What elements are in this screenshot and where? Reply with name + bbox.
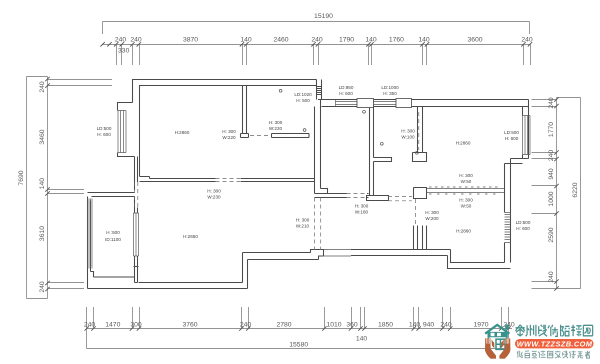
pier 2 bbox=[396, 99, 412, 108]
svg-text:240: 240 bbox=[311, 37, 323, 44]
pier 1 bbox=[357, 99, 374, 108]
logo title glyphs bbox=[515, 325, 592, 337]
wall top band outer bbox=[318, 99, 529, 101]
svg-text:H:2860: H:2860 bbox=[456, 141, 471, 146]
glyph zhe bbox=[585, 351, 590, 358]
svg-text:1850: 1850 bbox=[378, 322, 393, 329]
logo subtitle glyphs bbox=[517, 351, 590, 358]
svg-text:330: 330 bbox=[118, 48, 130, 55]
window interior band W8 bbox=[427, 189, 505, 193]
svg-text:240: 240 bbox=[84, 322, 96, 329]
window balcony right W3 bbox=[134, 213, 139, 256]
dimension bottom chain line bbox=[87, 328, 513, 330]
pier rects top band bbox=[357, 99, 412, 108]
svg-text:2460: 2460 bbox=[273, 37, 288, 44]
svg-text:140: 140 bbox=[409, 322, 421, 329]
window top band W5b bbox=[374, 100, 397, 107]
dashed opening H1 D2 bbox=[216, 179, 241, 182]
svg-text:W:210: W:210 bbox=[296, 224, 310, 229]
svg-text:300: 300 bbox=[130, 322, 142, 329]
svg-text:H :500: H :500 bbox=[106, 230, 120, 235]
svg-text:3460: 3460 bbox=[39, 129, 46, 144]
svg-text:140: 140 bbox=[418, 37, 430, 44]
dimension top chain line bbox=[103, 44, 531, 46]
wall bottom-right balcony bottom bbox=[448, 250, 511, 269]
wall balcony-connector column bbox=[135, 157, 138, 191]
glyph wang bbox=[583, 325, 592, 336]
tick marks top chain bbox=[100, 42, 532, 46]
svg-text:1010: 1010 bbox=[326, 322, 341, 329]
dimension left chain line bbox=[47, 77, 49, 299]
svg-text:1760: 1760 bbox=[389, 37, 404, 44]
dashed corridor passage D1 bbox=[315, 198, 321, 251]
wall right lower (balcony right) bbox=[505, 159, 511, 263]
svg-text:W:230: W:230 bbox=[207, 195, 221, 200]
svg-text:940: 940 bbox=[423, 322, 435, 329]
svg-text:H:2860: H:2860 bbox=[175, 130, 190, 135]
window band right pier bbox=[414, 188, 427, 199]
svg-text:H:2860: H:2860 bbox=[456, 228, 471, 233]
svg-text:H: 300: H: 300 bbox=[222, 129, 236, 134]
svg-text:240: 240 bbox=[548, 150, 555, 162]
glyph wang2 bbox=[547, 351, 552, 358]
glyph hu bbox=[532, 351, 537, 358]
wall interior H1 kitchen bottom bbox=[140, 177, 315, 182]
svg-text:140: 140 bbox=[365, 37, 377, 44]
dimension right overall 6220 line bbox=[580, 98, 582, 289]
svg-text:240: 240 bbox=[548, 271, 555, 283]
svg-text:240: 240 bbox=[440, 322, 452, 329]
svg-text:140: 140 bbox=[240, 37, 252, 44]
wall right jog bbox=[505, 159, 529, 164]
svg-text:3760: 3760 bbox=[182, 322, 197, 329]
svg-text:H: 300: H: 300 bbox=[401, 129, 415, 134]
logo hands bbox=[485, 338, 510, 359]
glyph jia bbox=[555, 351, 560, 358]
wall interior V2 corridor bbox=[315, 100, 321, 194]
wall top-left outer bbox=[133, 80, 317, 103]
dimension right chain line bbox=[556, 98, 558, 289]
svg-text:H: 300: H: 300 bbox=[425, 210, 439, 215]
svg-text:240: 240 bbox=[548, 97, 555, 109]
wall top-left inner bbox=[140, 86, 317, 177]
svg-text:LD:950: LD:950 bbox=[339, 85, 354, 90]
glyph zhou bbox=[526, 325, 536, 337]
svg-text:15580: 15580 bbox=[289, 342, 308, 349]
wall interior V4 foot bbox=[413, 153, 427, 162]
svg-text:H: 300: H: 300 bbox=[355, 204, 369, 209]
svg-text:H: 500: H: 500 bbox=[296, 98, 310, 103]
svg-text:W:100: W:100 bbox=[401, 135, 415, 140]
window rungs connector bbox=[317, 87, 322, 95]
tick marks bottom chain bbox=[85, 326, 511, 330]
dashed opening V3foot-pier D5 bbox=[388, 197, 412, 201]
window sill bottom opening bbox=[324, 250, 352, 257]
svg-text:H: 600: H: 600 bbox=[505, 136, 519, 141]
svg-text:140: 140 bbox=[39, 178, 46, 190]
wall interior V3 bbox=[370, 107, 374, 196]
svg-text:H: 350: H: 350 bbox=[383, 91, 397, 96]
window left wall W1 bbox=[118, 111, 126, 153]
svg-text:H: 600: H: 600 bbox=[339, 91, 353, 96]
svg-text:140: 140 bbox=[356, 336, 368, 343]
wall interior V3 foot bbox=[367, 196, 389, 201]
wall right upper outer bbox=[528, 100, 530, 159]
svg-text:ID:1100: ID:1100 bbox=[105, 237, 121, 242]
glyph wu bbox=[577, 352, 582, 358]
dimension bottom overall 15580 line bbox=[87, 348, 509, 350]
dashed door V4 D4 bbox=[418, 112, 420, 150]
dashed balcony door D7 bbox=[135, 182, 138, 208]
svg-text:H: 600: H: 600 bbox=[516, 226, 530, 231]
wall interior V2 jog / H2 corridor bottom bbox=[315, 189, 369, 198]
glyph you bbox=[517, 351, 523, 358]
wall kitchen divider bbox=[272, 134, 310, 138]
svg-text:W:50: W:50 bbox=[461, 204, 472, 209]
svg-text:940: 940 bbox=[548, 168, 555, 180]
svg-text:240: 240 bbox=[240, 322, 252, 329]
wall interior H4 stub bbox=[374, 158, 392, 162]
wall interior vertical living/balcony bbox=[134, 197, 139, 283]
svg-text:W:180: W:180 bbox=[355, 210, 369, 215]
svg-text:7690: 7690 bbox=[18, 170, 25, 185]
svg-text:240: 240 bbox=[130, 37, 142, 44]
svg-text:LD:1020: LD:1020 bbox=[294, 92, 312, 97]
door hinge dots bbox=[279, 89, 418, 154]
dimension left overall 7690 line bbox=[26, 77, 28, 299]
svg-text:15190: 15190 bbox=[314, 13, 333, 20]
svg-text:H: 300: H: 300 bbox=[459, 173, 473, 178]
wall right upper inner bbox=[522, 107, 524, 159]
svg-text:1000: 1000 bbox=[548, 191, 555, 206]
wall balcony door stubs bbox=[414, 226, 427, 250]
wall upper-left connector right (vertical, with window) bbox=[317, 80, 322, 100]
wall interior V4 bbox=[418, 107, 423, 153]
wall bottom outer bbox=[88, 283, 248, 289]
svg-text:H: 300: H: 300 bbox=[269, 120, 283, 125]
glyph zhao bbox=[561, 325, 570, 337]
glyph shi bbox=[548, 325, 558, 337]
glyph zhuang bbox=[539, 325, 547, 337]
svg-text:H:2650: H:2650 bbox=[183, 234, 198, 239]
svg-text:LD:1000: LD:1000 bbox=[381, 85, 399, 90]
dashed door kitchen D6 bbox=[250, 135, 270, 137]
svg-text:3600: 3600 bbox=[467, 37, 482, 44]
svg-text:W:220: W:220 bbox=[222, 135, 236, 140]
svg-text:1470: 1470 bbox=[105, 322, 120, 329]
wall bottom mid bbox=[243, 250, 451, 260]
extension lines top chain bbox=[116, 45, 118, 66]
svg-text:W:220: W:220 bbox=[269, 126, 283, 131]
svg-text:H: 300: H: 300 bbox=[459, 198, 473, 203]
wall balcony bottom-left bbox=[88, 193, 135, 289]
svg-text:3870: 3870 bbox=[183, 37, 198, 44]
svg-text:3610: 3610 bbox=[39, 226, 46, 241]
svg-text:2780: 2780 bbox=[276, 322, 291, 329]
svg-text:360: 360 bbox=[346, 322, 358, 329]
window right wall W6 bbox=[523, 116, 531, 155]
window right lower ladder W7 bbox=[505, 213, 511, 243]
svg-text:240: 240 bbox=[39, 281, 46, 293]
svg-text:H: 300: H: 300 bbox=[296, 218, 310, 223]
wall top band inner bbox=[322, 106, 529, 108]
glyph tai bbox=[515, 325, 524, 336]
svg-text:1790: 1790 bbox=[339, 37, 354, 44]
dimension overall top 15190 line bbox=[103, 21, 530, 23]
glyph zhuang2 bbox=[563, 351, 568, 358]
svg-text:H: 600: H: 600 bbox=[97, 132, 111, 137]
svg-text:240: 240 bbox=[115, 37, 127, 44]
glyph biao bbox=[571, 325, 581, 337]
svg-text:240: 240 bbox=[39, 81, 46, 93]
svg-text:LD:500: LD:500 bbox=[504, 130, 519, 135]
svg-text:LD:500: LD:500 bbox=[97, 126, 112, 131]
logo house icon bbox=[485, 324, 511, 350]
window top band W5a bbox=[336, 100, 358, 107]
svg-text:WWW.TZZSZB.COM: WWW.TZZSZB.COM bbox=[517, 339, 593, 348]
svg-text:H: 300: H: 300 bbox=[207, 189, 221, 194]
wall bottom mid left vertical bbox=[243, 253, 248, 289]
glyph lian bbox=[538, 351, 545, 358]
svg-text:2590: 2590 bbox=[548, 227, 555, 242]
window balcony left W2 bbox=[88, 199, 93, 269]
svg-text:6220: 6220 bbox=[572, 182, 579, 197]
tick marks right chain bbox=[554, 97, 558, 290]
wall interior V1 bbox=[241, 86, 249, 138]
svg-text:LD:500: LD:500 bbox=[516, 220, 531, 225]
svg-text:W:50: W:50 bbox=[461, 179, 472, 184]
dashed pier-down D8 bbox=[415, 199, 417, 225]
wall left step bbox=[118, 103, 138, 163]
svg-text:W:200: W:200 bbox=[425, 216, 439, 221]
tick marks left chain bbox=[45, 77, 49, 291]
glyph zhi bbox=[525, 351, 529, 358]
glyph fu bbox=[569, 351, 575, 358]
dashed opening H2 D3 bbox=[347, 194, 368, 198]
svg-text:1770: 1770 bbox=[548, 122, 555, 137]
logo url bar bbox=[515, 339, 594, 348]
svg-text:240: 240 bbox=[521, 37, 533, 44]
